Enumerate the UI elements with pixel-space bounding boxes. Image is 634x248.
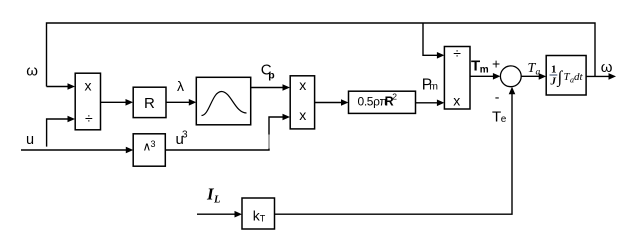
arrowhead into Cp block [189,99,197,106]
arrowhead into sum left [493,73,501,80]
svg-text:ω: ω [26,62,38,79]
wire Pm [416,102,439,104]
svg-text:T: T [260,214,266,224]
block integrator [546,56,586,96]
wire multiplier to gain block [315,102,343,104]
svg-text:x: x [299,107,306,123]
svg-text:2: 2 [392,92,397,102]
block U1 multiply-divide [75,73,100,130]
svg-text:x: x [453,93,460,109]
svg-text:m: m [480,64,489,75]
svg-text:x: x [85,78,92,94]
svg-text:-: - [495,89,500,105]
svg-text:u: u [26,132,34,148]
block R gain [133,87,166,117]
wire u input [21,149,128,151]
block Cp curve [196,77,250,125]
arrowhead into sum bottom [509,87,516,95]
svg-text:T: T [492,108,501,125]
wire IL input [197,213,237,215]
svg-text:a: a [536,67,541,77]
svg-text:∫: ∫ [557,68,564,88]
wire u cubed faded segment [268,135,270,149]
wire lambda R to Cp [166,101,191,103]
svg-text:J: J [550,76,557,88]
arrowhead into multiplier2 top [283,84,291,91]
integrator fraction bar [550,74,558,76]
svg-text:x: x [299,77,306,93]
svg-text:e: e [501,114,507,125]
wire feedback into multiplier x input [47,86,70,88]
svg-text:λ: λ [177,78,184,94]
block cube [133,134,165,166]
wire multiplier to R [101,101,128,103]
svg-text:ω: ω [601,59,613,76]
wire Cp output [251,87,284,89]
wire feedback branch to divider [423,23,439,55]
arrowhead into R [126,99,134,106]
block gain 0.5 rho pi R2 [349,91,416,113]
arrowhead into divider div input [437,52,445,59]
arrowhead into gain block [341,99,349,106]
svg-text:÷: ÷ [453,45,461,61]
svg-text:dt: dt [574,71,584,83]
arrowhead omega output [609,73,617,80]
arrowhead into divider x input [437,100,445,107]
wire Te kT to sum [275,93,513,214]
wire Ta sum to integrator [521,75,540,77]
block multiplier2 [290,76,314,129]
svg-text:L: L [213,195,220,206]
svg-text:3: 3 [151,139,156,149]
arrowhead into integrator [539,73,547,80]
wire u branch to divide input [47,119,69,147]
arrowhead into cube block [126,147,134,154]
wire u cubed [165,117,284,150]
svg-text:3: 3 [182,130,188,141]
wire feedback top [47,23,596,87]
svg-text:÷: ÷ [85,110,93,126]
block divider [444,47,470,110]
wire Tm divider to sum [470,75,495,77]
block kT [242,198,275,229]
svg-text:0.5ρπ: 0.5ρπ [358,94,388,108]
svg-text:T: T [471,58,480,75]
wire omega output [586,75,610,77]
bell curve [202,92,247,116]
svg-text:+: + [492,55,500,71]
integrator math one over J [550,64,584,88]
svg-text:p: p [268,69,274,81]
arrowhead into multiplier x input [68,83,76,90]
arrowhead into multiplier2 bottom [283,114,291,121]
svg-text:1: 1 [551,64,557,76]
svg-text:R: R [144,95,155,112]
svg-text:m: m [429,81,438,93]
arrowhead into kT [235,211,243,218]
arrowhead into divide input of multiplier [68,116,76,123]
